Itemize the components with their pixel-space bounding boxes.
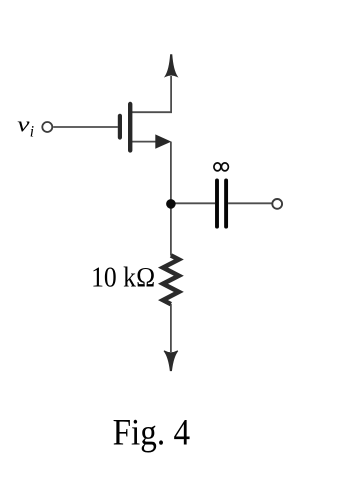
svg-text:Fig. 4: Fig. 4	[113, 412, 191, 453]
svg-text:i: i	[30, 124, 34, 141]
svg-text:v: v	[17, 113, 30, 137]
svg-text:10 kΩ: 10 kΩ	[91, 263, 156, 294]
